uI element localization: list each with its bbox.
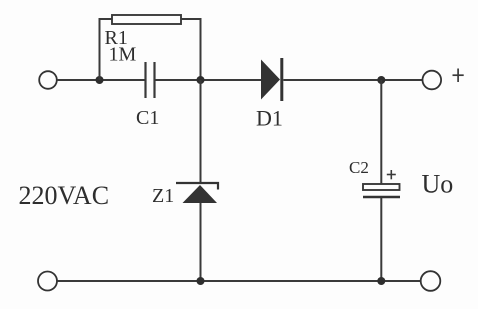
node D junction dot xyxy=(197,277,205,285)
resistor R1 body xyxy=(112,15,181,24)
svg-text:D1: D1 xyxy=(256,106,283,131)
node B junction dot xyxy=(197,76,205,84)
capacitor C2 top plate xyxy=(363,184,400,190)
wire R1 loop left vertical xyxy=(100,19,113,80)
node C junction dot xyxy=(377,76,385,84)
wire node B down to zener xyxy=(200,80,202,183)
terminal top-right xyxy=(423,71,442,90)
svg-text:220VAC: 220VAC xyxy=(19,181,110,210)
diode D1 cathode bar xyxy=(280,58,283,101)
wire zener to bottom xyxy=(200,203,202,281)
terminal bottom-left xyxy=(38,272,57,291)
wire R1 loop right xyxy=(181,19,201,80)
wire top-left horizontal xyxy=(57,79,145,81)
diode D1 triangle xyxy=(261,60,280,100)
node E junction dot xyxy=(377,277,385,285)
capacitor C2 bottom plate xyxy=(363,196,400,199)
terminal top-left xyxy=(39,71,57,89)
wire bottom horizontal xyxy=(58,280,421,282)
svg-text:1M: 1M xyxy=(109,44,137,66)
svg-text:C2: C2 xyxy=(349,158,369,177)
svg-text:Uo: Uo xyxy=(422,170,454,199)
svg-text:Z1: Z1 xyxy=(152,185,174,207)
capacitor C1 plates xyxy=(144,62,146,98)
wire node C down to C2 xyxy=(380,80,382,184)
wire C2 to bottom xyxy=(380,198,382,281)
node A junction dot xyxy=(96,76,104,84)
terminal bottom-right xyxy=(421,271,441,291)
plus sign output xyxy=(453,69,464,83)
zener Z1 triangle xyxy=(183,185,218,203)
zener Z1 cathode bar xyxy=(176,183,218,190)
plus sign C2 xyxy=(387,170,396,179)
svg-text:C1: C1 xyxy=(136,107,159,129)
wire C1 to D1 xyxy=(155,79,262,81)
wire D1 to right terminal xyxy=(283,79,422,81)
